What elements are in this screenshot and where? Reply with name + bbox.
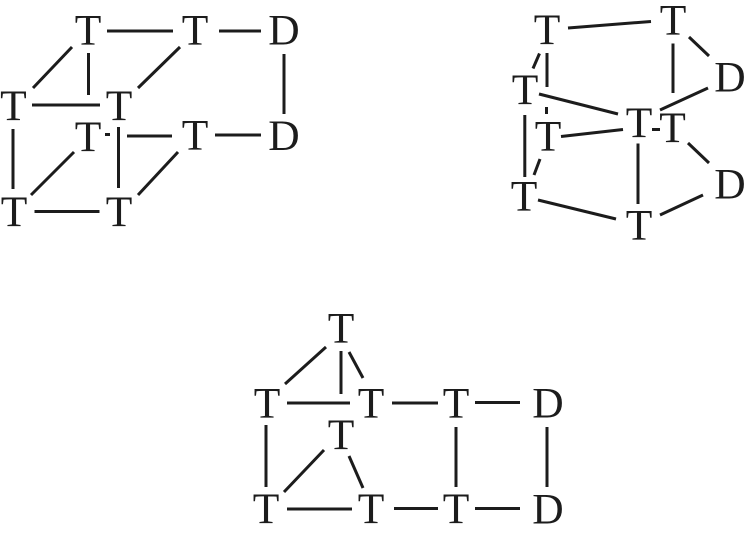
edge n4-n5: [32, 104, 100, 107]
edge n1-n4: [33, 47, 72, 88]
svg-text:D: D: [714, 54, 745, 102]
edge n2-n5: [138, 47, 180, 88]
svg-text:T: T: [535, 113, 562, 161]
edge q7-q8: [287, 508, 352, 511]
edge n9-n6: [31, 152, 74, 195]
svg-text:T: T: [328, 305, 355, 353]
svg-text:T: T: [75, 113, 102, 161]
edge q3-q4: [392, 402, 438, 405]
svg-text:T: T: [0, 82, 27, 130]
edge n7-n8: [215, 134, 261, 137]
edge n4-n9: [12, 129, 15, 189]
edge n1-n6: [87, 53, 90, 95]
svg-text:T: T: [106, 82, 133, 130]
edge m1-m4 stub: [533, 54, 540, 69]
svg-text:T: T: [443, 485, 470, 533]
svg-text:T: T: [443, 380, 470, 428]
svg-text:T: T: [626, 202, 653, 250]
edge q6-q7: [284, 450, 324, 492]
svg-text:D: D: [532, 486, 563, 534]
svg-text:T: T: [106, 188, 133, 236]
edge m5-m10: [637, 144, 640, 205]
edge m5-m6 dash: [652, 128, 660, 131]
edge m10-m8: [660, 195, 703, 215]
edge q5-q10: [546, 427, 549, 487]
edge q6-q8: [349, 456, 363, 488]
edge m5-m3: [660, 88, 708, 110]
edge m1-m2: [568, 22, 651, 29]
edge q4-q9: [455, 427, 458, 487]
svg-text:T: T: [358, 485, 385, 533]
edge q9-q10: [475, 507, 520, 510]
edge n6-n7: [127, 135, 172, 138]
edge q1-q2: [285, 347, 326, 384]
edge q8-q9: [394, 507, 438, 510]
edge q4-q5: [475, 401, 520, 404]
edge q1-q6: [340, 351, 343, 394]
edge n3-n8: [283, 54, 286, 114]
edge m7-m9 stub: [534, 159, 540, 175]
edge m6-m8: [688, 143, 709, 163]
edge m1-m7 a: [546, 53, 549, 87]
svg-text:T: T: [75, 7, 102, 55]
svg-text:T: T: [1, 188, 28, 236]
svg-text:D: D: [532, 380, 563, 428]
edge q2-q7: [265, 425, 268, 487]
edge m4-m9: [523, 115, 526, 177]
svg-text:D: D: [268, 7, 299, 55]
svg-text:T: T: [626, 99, 653, 147]
edge q1-q3: [349, 352, 363, 378]
edge m2-m6: [672, 44, 675, 94]
svg-text:T: T: [512, 66, 539, 114]
edge n5-n10: [117, 127, 120, 188]
edge m9-m10: [538, 200, 616, 219]
svg-text:T: T: [182, 112, 209, 160]
svg-text:T: T: [660, 0, 687, 45]
svg-text:T: T: [253, 485, 280, 533]
svg-text:D: D: [714, 161, 745, 209]
edge m4-m5: [539, 94, 618, 114]
edge n1-n2: [107, 30, 173, 33]
edge n9-n10: [35, 210, 100, 213]
svg-text:T: T: [534, 6, 561, 54]
svg-text:T: T: [511, 173, 538, 221]
edge m2-m3: [689, 37, 709, 56]
edge n10-n7: [138, 152, 178, 195]
edge q2-q3: [287, 402, 350, 405]
svg-text:T: T: [328, 411, 355, 459]
svg-text:T: T: [254, 380, 281, 428]
edge n2-n3: [219, 30, 261, 33]
svg-text:T: T: [659, 104, 686, 152]
edge m1-m7 b: [545, 107, 548, 114]
svg-text:D: D: [268, 112, 299, 160]
svg-text:T: T: [358, 380, 385, 428]
svg-text:T: T: [182, 7, 209, 55]
edge n6-n7 stub: [105, 133, 110, 136]
edge m7-m5: [561, 130, 623, 137]
